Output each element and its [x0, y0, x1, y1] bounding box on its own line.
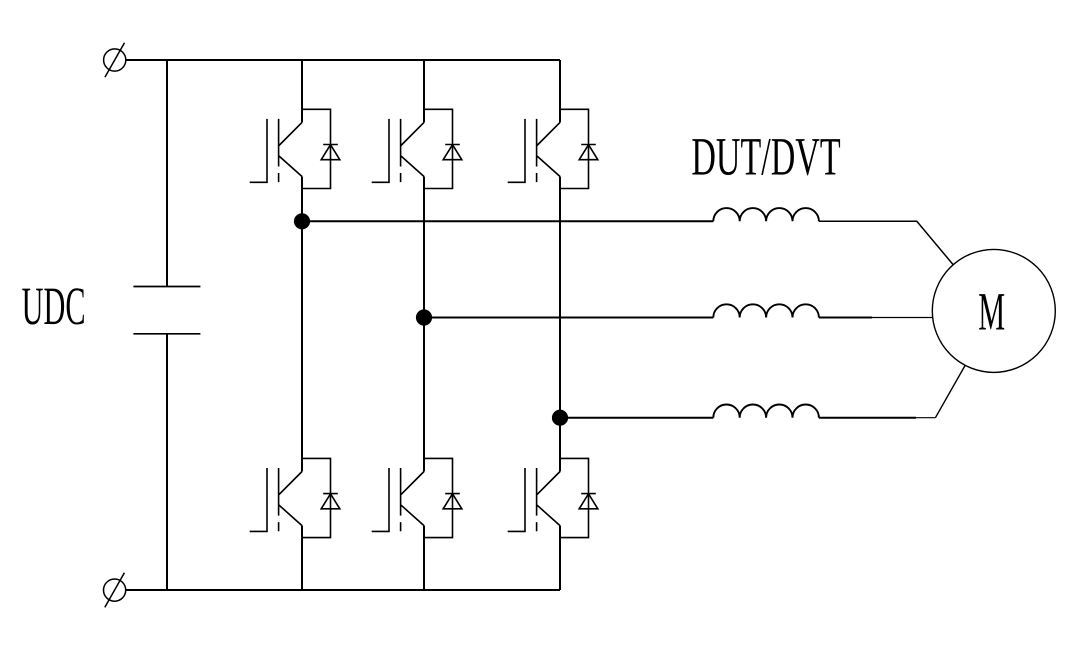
diode D6	[579, 494, 598, 509]
wire Q1 collector/emitter connectors to diode branch	[302, 109, 331, 188]
node A (phase A junction)	[294, 213, 310, 229]
wire leg 1 vertical segments	[301, 60, 303, 590]
diode D1	[321, 145, 340, 160]
wire leg 2 vertical segments	[423, 60, 425, 590]
wire DC-link capacitor branch (bottom)	[166, 334, 168, 590]
wire Q3 collector/emitter connectors to diode branch	[424, 109, 453, 188]
wire Q2 collector/emitter connectors to diode branch	[302, 458, 331, 537]
transistor Q1	[250, 119, 302, 182]
wire phase B to inductor	[424, 317, 713, 319]
node B (phase B junction)	[416, 309, 432, 325]
svg-text:M: M	[978, 282, 1005, 342]
transistor Q5	[508, 119, 560, 182]
wire Q5 collector/emitter connectors to diode branch	[560, 109, 589, 188]
wire phase C inductor to motor	[819, 417, 916, 419]
inductor L3 (phase C)	[713, 404, 819, 417]
DC- input terminal (circle with slash)	[104, 579, 126, 601]
wire Q4 collector/emitter connectors to diode branch	[424, 458, 453, 537]
wire Q6 collector/emitter connectors to diode branch	[560, 458, 589, 537]
capacitor C1 (DC link)	[133, 287, 200, 334]
transistor Q3	[372, 119, 424, 182]
transistor Q6	[508, 468, 560, 531]
transistor Q2	[250, 468, 302, 531]
diode D5	[579, 145, 598, 160]
node C (phase C junction)	[552, 410, 568, 426]
inductor L1 (phase A)	[713, 208, 819, 221]
wire bottom DC- rail	[126, 589, 560, 591]
DC+ input terminal (circle with slash)	[104, 49, 126, 71]
motor M (machine)	[932, 249, 1055, 372]
diode D4	[443, 494, 462, 509]
wire phase A to inductor	[302, 220, 713, 222]
wire top DC+ rail	[126, 59, 560, 61]
inductor L2 (phase B)	[713, 304, 819, 317]
wire leg 3 vertical segments	[559, 60, 561, 590]
wire phase B inductor to motor	[819, 317, 872, 319]
diode D2	[321, 494, 340, 509]
transistor Q4	[372, 468, 424, 531]
wire phase C to inductor	[560, 417, 713, 419]
svg-text:UDC: UDC	[22, 276, 86, 336]
wire phase A inductor to motor	[819, 221, 953, 264]
wire DC-link capacitor branch (top)	[166, 60, 168, 287]
diode D3	[443, 145, 462, 160]
svg-text:DUT/DVT: DUT/DVT	[691, 127, 840, 187]
